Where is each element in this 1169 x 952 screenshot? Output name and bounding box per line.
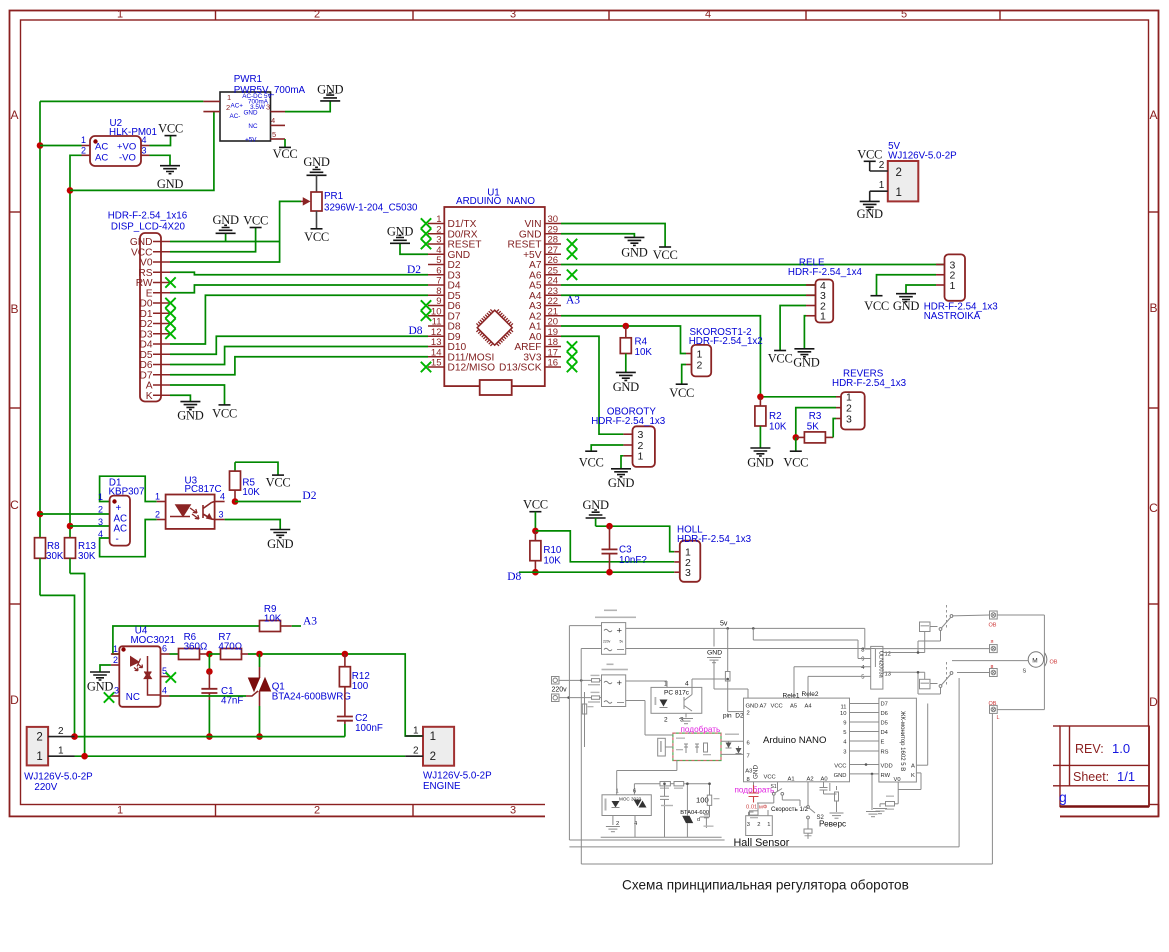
- svg-text:VDD: VDD: [881, 764, 893, 770]
- wire LCD E to D4: [170, 285, 428, 293]
- svg-text:3296W-1-204_C5030: 3296W-1-204_C5030: [324, 203, 418, 214]
- LCD pin D7: [153, 374, 170, 376]
- svg-text:5: 5: [272, 130, 276, 139]
- svg-text:1: 1: [113, 644, 118, 654]
- svg-text:D7: D7: [881, 702, 888, 708]
- svg-text:1: 1: [227, 93, 231, 102]
- svg-text:я: я: [991, 639, 994, 645]
- svg-text:D6: D6: [881, 711, 888, 717]
- embedded bottom rails: [601, 836, 722, 838]
- svg-text:A2: A2: [807, 777, 814, 783]
- svg-text:Скорость 1/2: Скорость 1/2: [771, 806, 809, 813]
- connector REVERS body: [841, 392, 865, 429]
- svg-text:HDR-F-2.54_1x3: HDR-F-2.54_1x3: [832, 378, 907, 389]
- embedded 5v rail: [626, 627, 865, 629]
- svg-text:K: K: [911, 773, 915, 779]
- resistor R7: [209, 653, 220, 655]
- opto U3 PC817C body: [166, 495, 215, 529]
- 220V pin 2: [48, 736, 74, 738]
- svg-text:3: 3: [747, 822, 750, 828]
- ground U3: [270, 530, 290, 538]
- svg-text:5: 5: [901, 9, 907, 21]
- svg-text:D: D: [1149, 695, 1158, 709]
- svg-text:220v: 220v: [603, 640, 611, 644]
- U1 pin 19 A0: [545, 335, 561, 337]
- svg-text:VCC: VCC: [212, 407, 237, 421]
- svg-text:2: 2: [113, 655, 118, 665]
- svg-text:2: 2: [664, 717, 668, 724]
- svg-text:D2: D2: [407, 264, 421, 276]
- U2 HLK-PM01 body: [90, 136, 141, 166]
- svg-text:5: 5: [843, 730, 846, 736]
- U1 pin 29 GND: [545, 233, 561, 235]
- ground OBOROTY: [611, 469, 631, 477]
- svg-text:-VO: -VO: [119, 153, 136, 164]
- U1 pin 1 D1/TX: [428, 223, 444, 225]
- svg-text:в: в: [991, 664, 994, 670]
- svg-text:1: 1: [430, 731, 436, 743]
- junction R10 top: [532, 528, 539, 535]
- svg-text:ULN2003a: ULN2003a: [878, 651, 884, 679]
- RELE pin 2: [806, 305, 816, 307]
- svg-text:R3: R3: [809, 411, 822, 422]
- svg-text:REV:: REV:: [1075, 742, 1104, 756]
- wire LCD RS to D3: [170, 272, 428, 275]
- svg-text:VCC: VCC: [653, 248, 678, 262]
- VCC flag PWR1: [279, 146, 291, 148]
- svg-text:1: 1: [879, 180, 885, 191]
- connector 220V body: [27, 727, 48, 766]
- svg-text:4: 4: [685, 681, 689, 688]
- wire loop D1 pin4 to U3 pin2: [100, 520, 157, 557]
- svg-text:9: 9: [843, 720, 846, 726]
- ground R2: [750, 448, 770, 456]
- svg-text:GND: GND: [87, 680, 113, 694]
- svg-text:PC 817c: PC 817c: [664, 690, 690, 697]
- LCD pin D5: [153, 353, 170, 355]
- svg-text:A5: A5: [790, 704, 797, 710]
- svg-text:KBP307: KBP307: [109, 486, 145, 497]
- embedded MOC3023 box: [602, 795, 651, 816]
- svg-text:4: 4: [162, 686, 167, 696]
- OBOROTY pin 1: [623, 455, 632, 457]
- svg-text:2: 2: [896, 167, 902, 179]
- wire C1 branch: [208, 654, 210, 672]
- ground HOLL: [586, 510, 606, 518]
- svg-text:+: +: [617, 678, 623, 689]
- connector ENGINE body: [423, 727, 454, 766]
- PR1 top pin: [316, 175, 318, 192]
- svg-text:A7: A7: [760, 704, 767, 710]
- svg-text:D: D: [10, 693, 19, 707]
- svg-text:C: C: [1149, 501, 1158, 515]
- svg-text:V0: V0: [894, 777, 901, 783]
- svg-text:D2: D2: [302, 490, 316, 502]
- U1 pin 27 +5V: [545, 253, 561, 255]
- svg-text:4: 4: [98, 529, 103, 539]
- wire U4 pin1 to R9 net: [113, 626, 260, 654]
- connector OBOROTY body: [633, 426, 655, 467]
- svg-text:VCC: VCC: [523, 498, 548, 512]
- op-amp U1 ARDUINO NANO body: [444, 207, 545, 386]
- embedded motor wires: [997, 614, 1044, 616]
- svg-text:подобрать: подобрать: [681, 725, 721, 734]
- svg-text:2: 2: [757, 822, 760, 828]
- ENGINE pin 1: [405, 735, 423, 737]
- wire A7 to NASTROIKA pin3: [561, 264, 945, 266]
- PWR1 pin 1 AC+: [203, 100, 220, 102]
- svg-text:ARDUINO NANO: ARDUINO NANO: [456, 196, 535, 207]
- svg-text:10: 10: [840, 711, 846, 717]
- wire U2 pin3 to GND: [150, 155, 171, 165]
- U4 diac glyph: [144, 672, 152, 679]
- embedded preview image background: [545, 592, 1060, 872]
- HOLL pin 2: [674, 561, 680, 563]
- OBOROTY pin 2: [623, 444, 632, 446]
- svg-text:2: 2: [413, 746, 419, 757]
- RELE pin 3: [806, 294, 816, 296]
- svg-text:L: L: [997, 715, 1000, 721]
- U1 pin 5 D2: [428, 264, 444, 266]
- svg-text:360Ω: 360Ω: [184, 641, 208, 652]
- embedded Arduino NANO box: [744, 698, 850, 782]
- svg-text:A3: A3: [745, 769, 752, 775]
- svg-text:MOC3021: MOC3021: [131, 635, 176, 646]
- VCC flag R3: [795, 437, 797, 451]
- wire R13 to 220V pin1 rail: [70, 574, 85, 757]
- svg-text:30K: 30K: [78, 551, 96, 562]
- svg-text:A: A: [911, 764, 915, 770]
- embedded GND stub: [713, 628, 715, 646]
- svg-text:-: -: [116, 534, 119, 545]
- PR1 bottom pin to VCC: [316, 211, 318, 229]
- OBOROTY pin 3: [623, 433, 632, 435]
- U2 pin 2: [82, 154, 91, 156]
- U2 pin 1: [82, 145, 91, 147]
- LCD pin RW: [153, 282, 170, 284]
- wire RELE pin2 to VCC: [780, 306, 806, 351]
- svg-text:d: d: [697, 817, 700, 823]
- svg-text:AC-: AC-: [230, 113, 241, 120]
- svg-text:1: 1: [950, 280, 956, 292]
- svg-text:HDR-F-2.54_1x4: HDR-F-2.54_1x4: [788, 267, 863, 278]
- capacitor C2: [337, 716, 353, 718]
- svg-text:1: 1: [81, 135, 86, 145]
- connector 5V body: [888, 161, 919, 201]
- LCD pin D0: [153, 302, 170, 304]
- U1 pin 26 A7: [545, 264, 561, 266]
- wire LCD D4 to D5: [170, 295, 428, 344]
- svg-text:ЖК-монитор 1602 5 В: ЖК-монитор 1602 5 В: [899, 711, 905, 771]
- opto triac U4 MOC3021 body: [119, 646, 160, 707]
- svg-text:HDR-F-2.54_1x2: HDR-F-2.54_1x2: [689, 336, 763, 347]
- svg-text:NC: NC: [126, 692, 140, 703]
- wire U1 pin30 VIN to VCC: [561, 224, 665, 248]
- svg-text:4: 4: [705, 9, 711, 21]
- U1 pin 14 D11/MOSI: [428, 356, 444, 358]
- title block: [1060, 726, 1149, 807]
- U1 pin 24 A5: [545, 284, 561, 286]
- junction R3 VCC: [793, 434, 800, 441]
- svg-text:GND: GND: [303, 155, 329, 169]
- embedded wires arduino to LCD: [850, 703, 879, 705]
- ground LCD K: [180, 402, 200, 410]
- svg-text:DISP_LCD-4X20: DISP_LCD-4X20: [111, 221, 186, 232]
- junction R4: [623, 323, 630, 330]
- svg-text:VCC: VCC: [857, 147, 882, 161]
- wire U1 pin29 GND: [561, 234, 634, 238]
- U1 pin 12 D9: [428, 335, 444, 337]
- svg-text:1: 1: [413, 725, 419, 736]
- svg-text:Реверс: Реверс: [819, 819, 846, 828]
- wire R8 to 220V pin2 rail: [40, 595, 75, 736]
- wire OBOROTY pin1 to GND: [621, 456, 623, 469]
- ground PR1: [307, 167, 327, 175]
- resistor R4: [625, 326, 627, 338]
- svg-text:2: 2: [58, 726, 64, 737]
- embedded hall box: [746, 816, 773, 836]
- U1 pin 28 RESET: [545, 243, 561, 245]
- wire U2 pin2 to AC2 bus: [70, 155, 82, 537]
- embedded motor: [1028, 652, 1043, 667]
- wire U4 pin4 to gate: [170, 695, 247, 697]
- svg-text:GND: GND: [387, 224, 413, 238]
- capacitor C3: [609, 526, 611, 549]
- svg-text:VCC: VCC: [669, 386, 694, 400]
- LCD pin RS: [153, 271, 170, 273]
- VCC flag RELE: [774, 350, 786, 352]
- svg-text:GND: GND: [244, 110, 258, 117]
- PWR1 module body: [220, 92, 271, 141]
- LCD pin A: [153, 384, 170, 386]
- svg-text:GND: GND: [613, 380, 639, 394]
- connector HOLL body: [680, 541, 701, 582]
- svg-text:GND: GND: [793, 355, 819, 369]
- svg-text:1: 1: [155, 492, 160, 502]
- wire U2 pin4 to VCC: [150, 136, 171, 146]
- LCD pin V0: [153, 261, 170, 263]
- embedded long return wires: [958, 678, 960, 847]
- embedded LCD monitor box: [879, 698, 917, 782]
- svg-text:PWR5V_700mA: PWR5V_700mA: [234, 85, 306, 96]
- VCC flag R5: [272, 474, 284, 476]
- embedded relay contacts: [939, 628, 942, 631]
- wire LCD D5 to D9: [170, 336, 428, 354]
- wire D1 pin2: [40, 513, 110, 515]
- triac Q1: [259, 654, 261, 667]
- svg-text:GND: GND: [177, 409, 203, 423]
- wire LCD K to GND: [170, 395, 190, 401]
- svg-text:3: 3: [685, 567, 691, 579]
- svg-text:E: E: [881, 740, 885, 746]
- svg-text:GND: GND: [157, 177, 183, 191]
- svg-text:3: 3: [142, 146, 147, 156]
- svg-text:D13/SCK: D13/SCK: [499, 363, 542, 374]
- svg-text:ОВ: ОВ: [989, 701, 997, 707]
- junction Q1 bottom: [256, 733, 263, 740]
- embedded motor terminals: [990, 611, 998, 619]
- svg-text:B: B: [1149, 301, 1157, 315]
- svg-text:8: 8: [747, 777, 750, 783]
- junction at D1 pin3 branch: [67, 523, 74, 530]
- svg-text:WJ126V-5.0-2P: WJ126V-5.0-2P: [888, 150, 957, 161]
- ground U1 pin4: [400, 243, 428, 254]
- svg-text:BTA24-600BWRG: BTA24-600BWRG: [272, 692, 351, 703]
- junction at U2 pin1 branch: [37, 142, 44, 149]
- svg-text:R10: R10: [543, 545, 562, 556]
- wire PWR1 pin3 to GND: [285, 101, 330, 112]
- svg-text:1: 1: [58, 746, 64, 757]
- U4 pin 2: [111, 664, 119, 666]
- svg-text:D4: D4: [881, 730, 889, 736]
- wire OBOROTY pin2 to VCC: [591, 445, 623, 451]
- svg-text:1.0: 1.0: [1112, 741, 1130, 756]
- ground LCD top: [225, 233, 227, 241]
- resistor R6: [179, 649, 200, 660]
- U1 pin 4 GND: [428, 253, 444, 255]
- svg-text:2: 2: [36, 731, 42, 743]
- svg-text:5: 5: [162, 666, 167, 676]
- ground 5V: [869, 191, 871, 201]
- svg-text:S: S: [1023, 669, 1027, 675]
- HOLL pin 1: [674, 551, 680, 553]
- U3 LED glyph: [170, 502, 199, 520]
- VCC flag 5V: [869, 161, 871, 171]
- svg-text:11: 11: [840, 705, 846, 711]
- svg-text:S1: S1: [771, 784, 777, 790]
- svg-text:2: 2: [314, 9, 320, 21]
- wire NASTROIKA pin1 to GND: [906, 285, 936, 294]
- wire LCD D7 to D11: [170, 357, 428, 375]
- svg-text:1: 1: [98, 492, 103, 502]
- embedded contact to terminal wires: [952, 614, 990, 617]
- wire U3 pin4 to net D2: [235, 501, 301, 503]
- svg-text:10K: 10K: [242, 487, 260, 498]
- Q1 gate: [246, 691, 258, 696]
- junction C1 bottom: [206, 733, 213, 740]
- svg-text:1: 1: [117, 9, 123, 21]
- U1 pin 2 D0/RX: [428, 233, 444, 235]
- svg-text:ОВ: ОВ: [1050, 659, 1058, 665]
- svg-text:Sheet:: Sheet:: [1073, 770, 1109, 784]
- embedded pullup resistor: [727, 628, 729, 671]
- U1 USB connector glyph: [480, 380, 512, 395]
- svg-text:HLK-PM01: HLK-PM01: [109, 127, 157, 138]
- REVERS pin 1: [836, 396, 841, 398]
- embedded speed switch: [777, 782, 779, 792]
- svg-text:VCC: VCC: [579, 456, 604, 470]
- svg-text:3: 3: [846, 413, 852, 425]
- embedded 220v terminals: [552, 677, 560, 685]
- connector NASTROIKA body: [945, 254, 966, 300]
- svg-text:NC: NC: [248, 123, 258, 130]
- embedded revers switch: [807, 782, 809, 806]
- junction C3 bottom: [606, 569, 613, 576]
- svg-text:+5V: +5V: [245, 137, 257, 144]
- embedded left loop wires: [569, 625, 601, 627]
- LCD pin D4: [153, 343, 170, 345]
- LCD no-connect marks: [165, 277, 175, 287]
- svg-text:HDR-F-2.54_1x16: HDR-F-2.54_1x16: [108, 210, 188, 221]
- wire NASTROIKA pin2 to VCC: [877, 275, 937, 296]
- junction R6 R7: [206, 651, 213, 658]
- embedded C4 cap: [664, 784, 666, 797]
- VCC flag SKOROST: [676, 383, 688, 385]
- HOLL pin 3: [674, 571, 680, 573]
- U4 pin 5 NC: [161, 676, 170, 678]
- U1 right no-connect marks: [567, 239, 577, 249]
- embedded PSU HLK-PM01 box: [602, 623, 626, 655]
- svg-text:AC: AC: [95, 153, 108, 164]
- U1 left no-connect marks: [421, 218, 431, 228]
- svg-text:A: A: [10, 108, 18, 122]
- svg-text:9: 9: [861, 657, 864, 663]
- U1 pin 10 D7: [428, 315, 444, 317]
- wire PR1 wiper from LCD V0: [170, 201, 301, 262]
- ground PWR1: [320, 93, 340, 101]
- svg-text:R2: R2: [769, 411, 782, 422]
- resistor R8: [39, 538, 41, 543]
- U1 pin 6 D3: [428, 274, 444, 276]
- embedded A0 capacitor branch: [823, 782, 825, 788]
- svg-text:2: 2: [98, 505, 103, 515]
- wire A2 to REVERS pin1: [561, 316, 836, 397]
- svg-text:GND: GND: [707, 650, 722, 657]
- wire vertical AC1 bus x40: [39, 101, 41, 537]
- junction 220V pin2: [71, 733, 78, 740]
- ground U1 pin29: [624, 237, 644, 245]
- embedded relay coils: [883, 652, 925, 654]
- junction 220V pin1: [81, 753, 88, 760]
- embedded resistor R8 left: [584, 692, 586, 747]
- wire U4 pin6 to R6: [170, 653, 179, 655]
- U1 pin 16 D13/SCK: [545, 366, 561, 368]
- junction R12 top: [342, 651, 349, 658]
- svg-text:6: 6: [633, 788, 636, 794]
- svg-text:5K: 5K: [807, 422, 819, 433]
- svg-text:10K: 10K: [769, 422, 787, 433]
- svg-text:ОВ: ОВ: [989, 623, 997, 629]
- U4 inner screen: [148, 656, 161, 695]
- svg-text:2: 2: [747, 711, 750, 717]
- embedded KBL50 bridge box: [602, 675, 626, 707]
- ground RELE: [794, 349, 814, 357]
- embedded opto input loop: [616, 771, 618, 795]
- svg-text:1: 1: [896, 187, 902, 199]
- svg-text:VCC: VCC: [266, 476, 291, 490]
- wire LCD GND: [170, 241, 280, 243]
- svg-text:RS: RS: [881, 750, 889, 756]
- embedded MOC area top resistors: [633, 784, 635, 795]
- LCD pin E: [153, 292, 170, 294]
- VCC flag NASTROIKA: [871, 295, 883, 297]
- resistor R9: [260, 621, 281, 632]
- wire LCD D6 to D10: [170, 347, 428, 365]
- U1 IC diamond glyph: [476, 309, 513, 346]
- wire A0 to OBOROTY pin3: [561, 336, 623, 434]
- VCC flag R10: [529, 511, 541, 513]
- resistor R2: [759, 397, 761, 406]
- svg-text:Схема принципиальная регулятор: Схема принципиальная регулятора оборотов: [622, 878, 909, 893]
- ground R4: [616, 372, 636, 380]
- svg-text:R4: R4: [635, 337, 648, 348]
- U3 pins: [157, 501, 166, 503]
- svg-text:A1: A1: [788, 777, 795, 783]
- svg-text:K: K: [146, 391, 153, 402]
- svg-text:+VO: +VO: [117, 142, 136, 153]
- wire R7 to Q1 and R12 and ENGINE: [248, 654, 423, 736]
- svg-text:D8: D8: [409, 325, 423, 337]
